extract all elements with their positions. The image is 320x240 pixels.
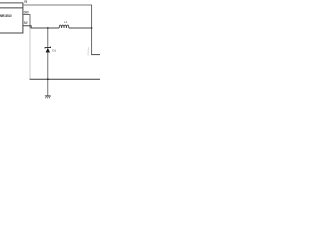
wire SW to inductor <box>23 26 59 28</box>
ground rail <box>30 78 100 80</box>
wire FB/VOUT right vertical and out <box>91 5 93 55</box>
wire GND pin to vertical <box>23 15 30 29</box>
svg-text:GND: GND <box>24 10 29 14</box>
wire FB <box>23 4 92 6</box>
junction VOUT node <box>91 27 93 29</box>
junction SW/D1 node <box>47 27 49 29</box>
wire diode to ground rail <box>47 52 49 79</box>
svg-text:SW: SW <box>24 21 28 25</box>
diode D1 body <box>46 48 50 52</box>
capacitor C2 partial faint <box>87 47 90 55</box>
svg-text:FB: FB <box>24 0 28 4</box>
wire VOUT out right <box>91 54 100 56</box>
wire input top-left <box>0 2 23 4</box>
ground symbol <box>45 96 51 99</box>
wire inductor to VOUT node <box>69 27 92 29</box>
wire SW node down to diode <box>47 28 49 48</box>
diode D1 schottky cathode bar <box>45 47 51 49</box>
wire GND vertical faint <box>29 28 31 79</box>
junction ground rail / D1 <box>47 78 49 80</box>
wire ground stem <box>47 79 49 96</box>
regulator U1 LMR10510 box <box>0 3 23 33</box>
inductor L1 <box>59 25 69 28</box>
svg-text:D1: D1 <box>52 48 56 52</box>
svg-text:MR10510: MR10510 <box>0 14 12 18</box>
svg-text:L1: L1 <box>64 20 68 24</box>
